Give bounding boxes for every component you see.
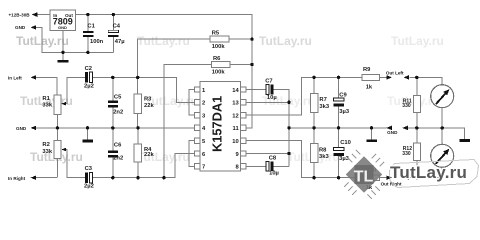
- junction R11 top on out-left wire: [415, 76, 418, 79]
- svg-text:GND: GND: [58, 25, 67, 30]
- terminal GND upper: [15, 25, 36, 30]
- wire R2 wiper to C3: [62, 150, 85, 178]
- wire meter column elbow to right ground stub: [442, 128, 464, 139]
- junction C9/C10 on right ground rail: [337, 126, 340, 129]
- capacitor C8 10u: [266, 155, 279, 176]
- junction pin9 with C8 node: [287, 152, 290, 155]
- terminal GND right: [386, 126, 408, 136]
- svg-text:GND: GND: [15, 25, 26, 30]
- junction R7/R8 on right ground rail: [312, 126, 315, 129]
- junction 7809 GND pin on PSU ground wire: [61, 51, 64, 54]
- junction R6 left on right input wire: [162, 176, 165, 179]
- wire R1 wiper to C2: [62, 77, 85, 103]
- svg-text:10µ: 10µ: [269, 171, 279, 177]
- svg-text:K157DA1: K157DA1: [209, 96, 224, 152]
- wire gnd arrow tail to meter column: [407, 127, 443, 129]
- svg-text:C10: C10: [340, 140, 351, 146]
- capacitor C10 3u3: [333, 140, 350, 162]
- wire R1 bottom to ground rail: [56, 115, 58, 128]
- svg-text:100n: 100n: [90, 39, 104, 45]
- svg-text:12: 12: [232, 113, 238, 119]
- potentiometer R1 33k: [42, 95, 66, 115]
- wire R4 column: [137, 128, 139, 178]
- ground symbol left rail: [82, 140, 93, 143]
- svg-text:330: 330: [402, 103, 411, 109]
- junction C5/C6 on ground rail: [111, 126, 114, 129]
- terminal +12B-30B: [9, 12, 38, 17]
- svg-text:3µ3: 3µ3: [339, 156, 350, 162]
- junction C9 top on left meter wire: [337, 76, 340, 79]
- svg-text:10µ: 10µ: [267, 95, 277, 101]
- junction R5 right on +V line: [250, 37, 253, 40]
- junction R4 bottom on right input wire: [136, 176, 139, 179]
- junction detector node with right ground rail: [287, 126, 290, 129]
- svg-text:22k: 22k: [144, 103, 154, 109]
- wire M1 bottom to M2 top: [441, 107, 443, 144]
- svg-text:100k: 100k: [212, 69, 226, 75]
- wire C7 out down to C8 node vertical: [274, 90, 290, 167]
- svg-text:47µ: 47µ: [115, 39, 125, 45]
- svg-text:C2: C2: [85, 66, 92, 72]
- svg-text:R9: R9: [363, 67, 371, 73]
- svg-text:C6: C6: [114, 143, 122, 149]
- wire C6 column: [112, 128, 114, 178]
- wire out-right arrow tail to meter M2: [409, 177, 442, 179]
- capacitor C1 100n: [83, 24, 104, 45]
- wire R7 column: [313, 77, 315, 128]
- junction R12 bottom on out-right wire: [415, 176, 418, 179]
- svg-text:TutLay.ru: TutLay.ru: [137, 34, 190, 48]
- wire ground rail left: [32, 127, 195, 129]
- resistor R7 3k3: [310, 94, 330, 113]
- svg-text:2µ2: 2µ2: [84, 84, 94, 90]
- junction R5/R3 on left input wire: [136, 76, 139, 79]
- wire pin 13: [246, 101, 289, 103]
- wire In Right to R2 bottom: [32, 177, 57, 179]
- svg-text:In Right: In Right: [8, 176, 26, 181]
- wire pin1 pin3 jumper: [189, 90, 195, 116]
- watermark TL logo chip: [344, 150, 384, 199]
- svg-text:C8: C8: [269, 155, 277, 161]
- resistor R5 100k: [210, 31, 229, 51]
- terminal GND lower: [16, 126, 36, 131]
- wire ground stub left: [87, 128, 89, 140]
- ground symbol at 7809: [58, 60, 69, 63]
- svg-text:R8: R8: [319, 147, 327, 153]
- junction mid ground stub on right ground rail: [370, 126, 373, 129]
- svg-text:100k: 100k: [212, 44, 226, 50]
- wire R9 to out-left arrow: [380, 76, 387, 78]
- wire pin 9: [246, 153, 289, 155]
- svg-text:2n2: 2n2: [113, 156, 123, 162]
- wire pin 8 to C8: [246, 165, 266, 167]
- wire pin 10 down to bottom right rail: [246, 141, 362, 178]
- svg-text:C3: C3: [85, 166, 93, 172]
- capacitor C6 2n2: [108, 143, 123, 162]
- resistor R3 22k: [134, 94, 154, 114]
- svg-text:GND: GND: [387, 130, 398, 135]
- wire R5 right lead: [229, 38, 252, 40]
- svg-text:13: 13: [232, 101, 239, 107]
- svg-text:11: 11: [233, 126, 240, 132]
- svg-text:R1: R1: [42, 96, 50, 102]
- junction ground stub on ground rail: [86, 126, 89, 129]
- svg-text:33k: 33k: [42, 149, 52, 155]
- svg-text:3µ3: 3µ3: [339, 109, 350, 115]
- junction C10 bottom on out-right wire: [337, 176, 340, 179]
- capacitor C7 10u: [265, 78, 276, 101]
- svg-text:+12B-30B: +12B-30B: [9, 12, 31, 17]
- wire C9 column: [338, 77, 340, 128]
- meter M1: [431, 85, 454, 108]
- resistor R6 100k: [212, 56, 231, 75]
- IC pin boxes left: [195, 87, 200, 169]
- watermark big TutLay.ru: [390, 160, 479, 188]
- ground symbol far right: [459, 139, 470, 142]
- svg-text:2: 2: [202, 101, 205, 107]
- svg-text:In Left: In Left: [8, 76, 22, 81]
- wire 7809 Out to +V rail down to pin 11: [76, 15, 253, 128]
- capacitor C4 47u: [108, 24, 124, 45]
- resistor R10 1k: [362, 167, 380, 191]
- svg-text:C7: C7: [265, 78, 272, 84]
- wire C5 column: [112, 77, 114, 128]
- svg-text:14: 14: [232, 88, 239, 94]
- svg-text:330: 330: [402, 151, 411, 157]
- resistor R9 1k: [362, 67, 380, 90]
- terminal In Left: [8, 75, 36, 80]
- IC U1 K157DA1: [200, 81, 241, 171]
- wire R10 to out-right arrow: [380, 177, 387, 179]
- svg-text:TL: TL: [354, 169, 374, 186]
- svg-text:22k: 22k: [144, 152, 154, 158]
- svg-text:TutLay.ru: TutLay.ru: [259, 34, 312, 48]
- junction C4 top on +V rail: [112, 13, 115, 16]
- wire pin 14 to C7: [246, 89, 266, 91]
- svg-text:C5: C5: [114, 94, 122, 100]
- svg-text:R3: R3: [144, 97, 152, 103]
- svg-text:1k: 1k: [366, 84, 373, 90]
- wire C3 to IC pin 6: [92, 154, 194, 178]
- wire R3 column: [137, 77, 139, 128]
- wire ground stub mid: [371, 128, 373, 139]
- wire 7809 GND pin: [62, 31, 64, 60]
- junction R11/R12 on right ground rail: [415, 126, 418, 129]
- capacitor C2 2u2: [84, 66, 94, 89]
- junction C5 top on left input wire: [111, 76, 114, 79]
- resistor R4 22k: [134, 144, 154, 162]
- svg-text:R2: R2: [42, 142, 49, 148]
- junction pin13 with C7 node: [287, 101, 290, 104]
- ground symbol mid right: [366, 139, 377, 142]
- svg-text:C1: C1: [87, 24, 95, 30]
- junction R8 bottom on out-right wire: [312, 176, 315, 179]
- svg-text:3k3: 3k3: [319, 154, 329, 160]
- wire GND input to lower ground rail of PSU: [32, 27, 113, 52]
- IC pin numbers left: [202, 88, 206, 171]
- wire In Left to R1 top: [32, 77, 57, 95]
- terminal Out Left: [386, 71, 409, 80]
- meter M2: [431, 144, 454, 167]
- junction M1/M2 on right ground rail: [441, 126, 444, 129]
- wire out-left arrow tail to meter M1: [409, 77, 442, 85]
- wire R8 column: [313, 128, 315, 178]
- svg-text:R7: R7: [319, 97, 326, 103]
- svg-text:R6: R6: [213, 56, 221, 62]
- svg-text:C9: C9: [339, 93, 347, 99]
- svg-text:33k: 33k: [42, 102, 52, 108]
- junction R3/R4 on ground rail: [136, 126, 139, 129]
- junction R6 right on +V line: [250, 63, 253, 66]
- svg-text:2n2: 2n2: [113, 109, 123, 115]
- svg-text:R5: R5: [212, 31, 220, 37]
- svg-text:3k3: 3k3: [319, 104, 329, 110]
- wire R6 right lead: [230, 64, 252, 66]
- wire C1 column: [87, 15, 89, 53]
- wire R5 left lead down to node: [138, 39, 210, 77]
- wire C8 out: [274, 165, 290, 167]
- junction C6 bottom on right input wire: [111, 176, 114, 179]
- wire C4 column: [112, 15, 114, 53]
- wire C10 column: [338, 128, 340, 178]
- wire pin 12 up to top right rail: [246, 77, 362, 115]
- wire R2 column: [56, 128, 58, 178]
- resistor R11 330: [402, 96, 420, 113]
- junction C1 top on +V rail: [86, 13, 89, 16]
- svg-text:10: 10: [232, 139, 238, 145]
- wire C2 to IC pin 2: [92, 77, 194, 102]
- capacitor C9 3u3: [333, 93, 349, 116]
- svg-text:7: 7: [202, 165, 205, 171]
- wire R6 left lead down to bottom input wire: [164, 65, 212, 178]
- wire +12V input to 7809 In: [35, 14, 51, 16]
- svg-text:TutLay.ru: TutLay.ru: [391, 34, 444, 48]
- capacitor C3 2u2: [84, 166, 94, 189]
- wire right ground rail: [289, 127, 387, 129]
- IC pin boxes right: [241, 87, 246, 169]
- junction R7 top on left meter wire: [312, 76, 315, 79]
- resistor R8 3k3: [310, 143, 329, 162]
- capacitor C5 2n2: [108, 94, 123, 115]
- terminal In Right: [8, 175, 36, 180]
- svg-text:2µ2: 2µ2: [84, 184, 94, 190]
- potentiometer R2 33k: [42, 141, 66, 159]
- svg-text:C4: C4: [113, 24, 121, 30]
- wire pin5 pin7 jumper: [189, 141, 195, 167]
- junction C1 bottom on PSU ground wire: [86, 51, 89, 54]
- svg-text:TutLay.ru: TutLay.ru: [390, 163, 467, 182]
- wire M2 bottom to out right wire: [441, 167, 443, 178]
- svg-text:Out Left: Out Left: [386, 71, 404, 76]
- svg-text:GND: GND: [16, 126, 27, 131]
- junction R1/R2 on ground rail: [56, 126, 59, 129]
- regulator U2 7809: [50, 10, 75, 31]
- terminal Out Right: [381, 175, 410, 186]
- wire R11 R12 column: [416, 77, 418, 177]
- IC pin numbers right: [232, 88, 239, 171]
- resistor R12 330: [402, 143, 420, 160]
